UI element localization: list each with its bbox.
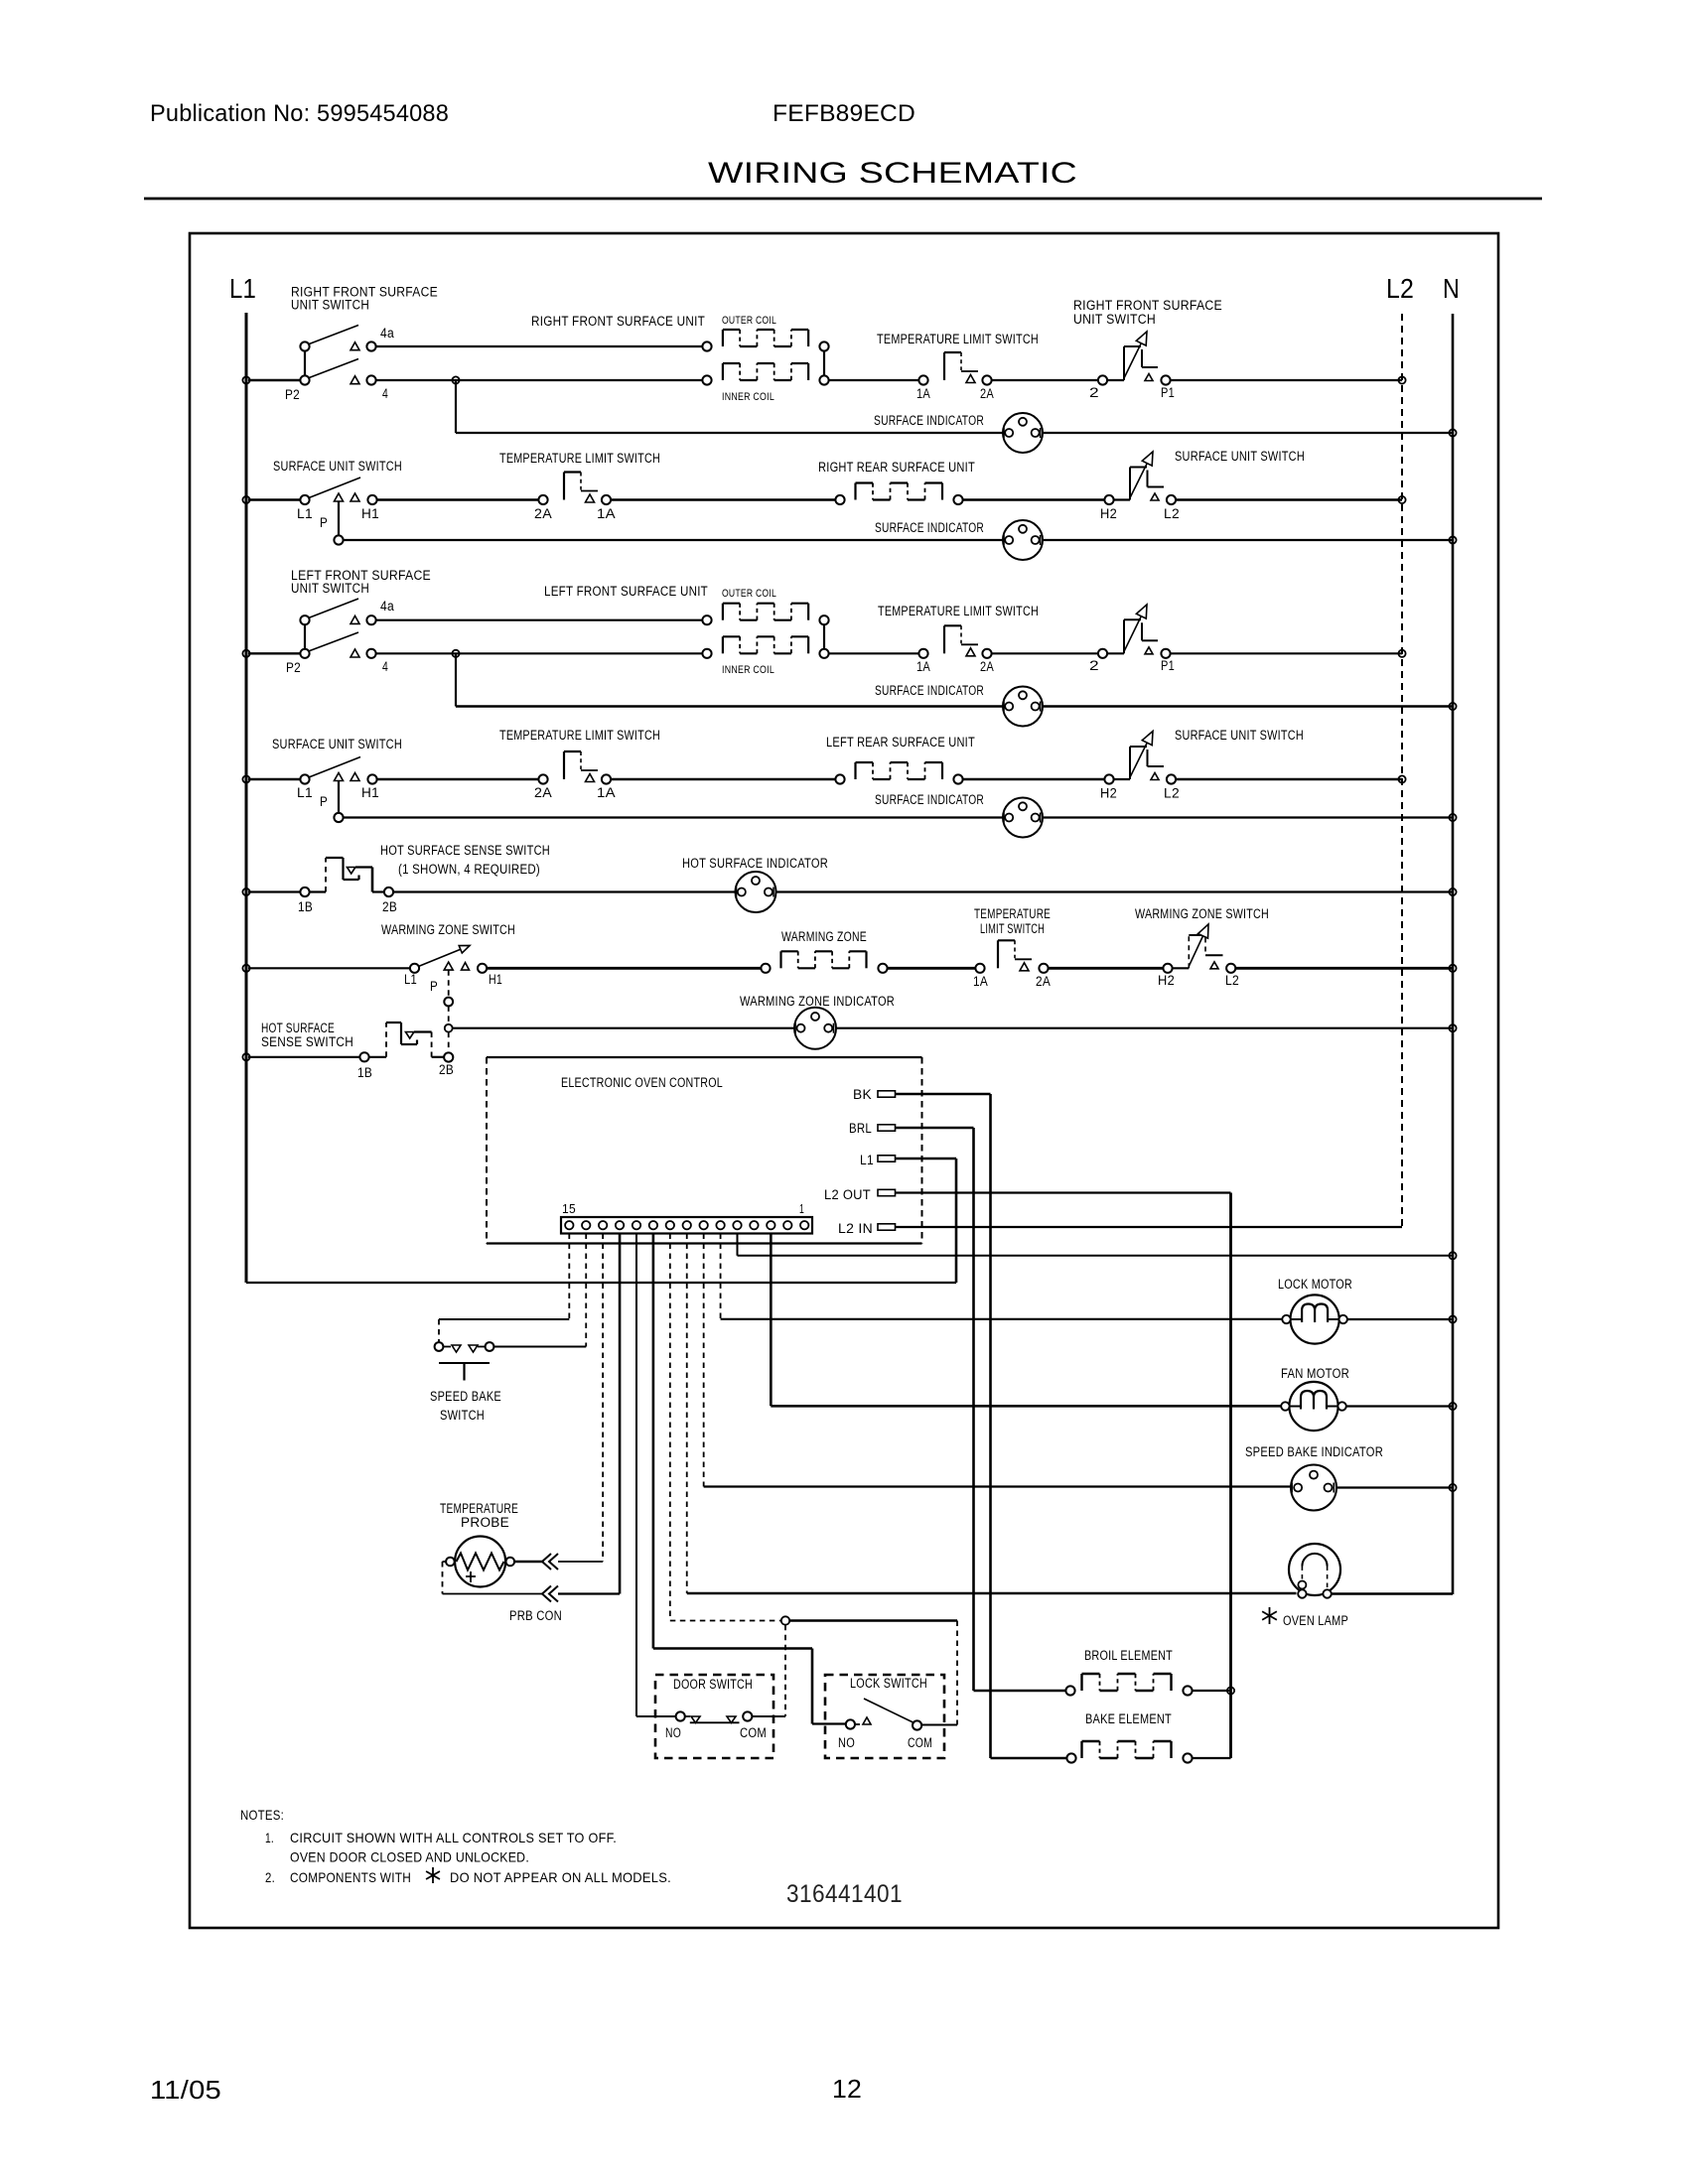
wire row4 L1 bus to switch bbox=[248, 778, 301, 780]
wire fan motor to N bus bbox=[1346, 1405, 1453, 1407]
svg-text:L1: L1 bbox=[297, 785, 313, 800]
wire row1 coil output link bbox=[823, 350, 825, 376]
svg-text:1: 1 bbox=[799, 1202, 804, 1216]
svg-text:1B: 1B bbox=[298, 899, 313, 914]
label L2 row4 bbox=[1164, 786, 1180, 801]
svg-text:COMPONENTS WITH: COMPONENTS WITH bbox=[290, 1869, 411, 1885]
label warming zone switch (left) bbox=[381, 922, 515, 937]
label P row4 bbox=[320, 794, 328, 809]
label hot surface indicator bbox=[682, 856, 828, 871]
svg-text:SURFACE UNIT SWITCH: SURFACE UNIT SWITCH bbox=[1175, 449, 1305, 464]
svg-text:H2: H2 bbox=[1100, 786, 1117, 801]
svg-text:(1 SHOWN, 4 REQUIRED): (1 SHOWN, 4 REQUIRED) bbox=[398, 862, 540, 877]
svg-text:PRB CON: PRB CON bbox=[509, 1608, 562, 1623]
switch warming zone (right, H2/L2) bbox=[1163, 924, 1235, 973]
label L1 row6 bbox=[404, 972, 417, 987]
svg-text:INNER COIL: INNER COIL bbox=[722, 391, 774, 403]
svg-text:N: N bbox=[1443, 273, 1460, 304]
wire row3 P1 to L2 bus bbox=[1170, 652, 1402, 654]
label lock COM bbox=[908, 1735, 932, 1750]
wire terminal 11 to door switch NO bbox=[636, 1234, 676, 1717]
label left front surface unit bbox=[544, 584, 708, 599]
switch surface unit row4 (L1/P/H1) bbox=[300, 757, 376, 823]
label 2A row3 bbox=[980, 659, 994, 674]
switch left front surface unit (right, 2/P1) bbox=[1098, 605, 1171, 658]
label temperature limit switch row3 bbox=[878, 604, 1039, 618]
svg-text:LIMIT SWITCH: LIMIT SWITCH bbox=[980, 921, 1045, 936]
svg-text:SPEED BAKE: SPEED BAKE bbox=[430, 1389, 501, 1404]
label temperature limit switch row6 bbox=[974, 906, 1051, 936]
label lock motor bbox=[1278, 1277, 1352, 1292]
junction node row4 on L1 bus bbox=[242, 775, 249, 782]
label speed bake switch bbox=[430, 1389, 501, 1423]
label inner coil row3 bbox=[722, 664, 774, 676]
svg-text:WARMING ZONE: WARMING ZONE bbox=[781, 929, 867, 944]
wire warming zone indicator feed bbox=[453, 1027, 1453, 1029]
label PRB CON bbox=[509, 1608, 562, 1623]
svg-text:NOTES:: NOTES: bbox=[240, 1807, 284, 1823]
pin terminal L2 IN bbox=[878, 1224, 896, 1230]
wire L2 IN terminal to L2 bus bbox=[896, 1226, 1403, 1228]
svg-text:SENSE SWITCH: SENSE SWITCH bbox=[261, 1034, 353, 1049]
switch temperature limit row4 (2A/1A) bbox=[538, 751, 611, 784]
header model number bbox=[773, 100, 915, 127]
label hot surface sense switch row7 bbox=[261, 1021, 353, 1049]
svg-text:15: 15 bbox=[562, 1202, 576, 1216]
wire broil element to L2 OUT run bbox=[1193, 1690, 1231, 1692]
svg-text:RIGHT FRONT SURFACE UNIT: RIGHT FRONT SURFACE UNIT bbox=[531, 314, 705, 329]
node N bus label bbox=[1443, 273, 1460, 304]
connector PRB chevron bottom bbox=[542, 1586, 558, 1602]
svg-text:P2: P2 bbox=[286, 660, 301, 675]
svg-text:L1: L1 bbox=[860, 1153, 874, 1167]
heater inner coil row3 bbox=[702, 636, 828, 658]
wire row3 limit switch to unit switch bbox=[991, 652, 1099, 654]
terminal circle row6 P mid bbox=[444, 998, 453, 1007]
switch surface unit row4 (right, H2/L2) bbox=[1104, 732, 1176, 784]
pin terminal BK bbox=[878, 1091, 896, 1097]
svg-text:FAN MOTOR: FAN MOTOR bbox=[1281, 1366, 1349, 1381]
label temperature probe bbox=[440, 1501, 518, 1530]
component lock switch box bbox=[825, 1675, 944, 1758]
label 2 row1 bbox=[1089, 385, 1099, 400]
svg-text:LEFT REAR SURFACE UNIT: LEFT REAR SURFACE UNIT bbox=[826, 735, 975, 750]
svg-text:L2: L2 bbox=[1225, 973, 1239, 988]
heater outer coil row3 bbox=[702, 604, 828, 625]
node L1 bus label bbox=[229, 273, 256, 304]
schematic border frame bbox=[190, 233, 1498, 1928]
svg-text:RIGHT FRONT SURFACE: RIGHT FRONT SURFACE bbox=[1073, 298, 1222, 313]
label H1 row4 bbox=[361, 785, 379, 800]
wire row3 coil output link bbox=[823, 624, 825, 650]
component temperature probe bbox=[446, 1537, 514, 1587]
label note 2 bbox=[265, 1869, 671, 1885]
junction node terminal5 on N bus bbox=[1449, 1252, 1456, 1259]
label L2 row6 bbox=[1225, 973, 1239, 988]
svg-text:SURFACE UNIT SWITCH: SURFACE UNIT SWITCH bbox=[273, 459, 402, 474]
junction node row2 indicator on N bus bbox=[1449, 536, 1456, 543]
label outer coil row1 bbox=[722, 315, 776, 327]
junction node row2 on L2 bus bbox=[1398, 496, 1405, 503]
label 1A row1 bbox=[916, 386, 930, 401]
label right rear surface unit bbox=[818, 460, 975, 475]
wire terminal 10 to lock switch NO bbox=[653, 1234, 846, 1724]
switch door (NO/COM) bbox=[676, 1711, 753, 1722]
label 4a row1 bbox=[380, 326, 394, 341]
pin terminal L2 OUT bbox=[878, 1189, 896, 1195]
node L2 bus label bbox=[1386, 273, 1414, 304]
label lock switch bbox=[850, 1676, 927, 1691]
label note 1b bbox=[290, 1849, 529, 1865]
svg-text:1A: 1A bbox=[597, 785, 616, 800]
label temperature limit switch row2 bbox=[499, 451, 660, 466]
label right front surface unit switch (right) bbox=[1073, 298, 1222, 327]
label right front surface unit switch (left) bbox=[291, 285, 438, 313]
svg-text:LEFT FRONT SURFACE UNIT: LEFT FRONT SURFACE UNIT bbox=[544, 584, 708, 599]
label surface indicator row4 bbox=[875, 792, 984, 807]
svg-text:316441401: 316441401 bbox=[786, 1880, 903, 1908]
label 2A row1 bbox=[980, 386, 994, 401]
svg-text:1B: 1B bbox=[357, 1065, 372, 1080]
svg-text:CIRCUIT SHOWN WITH ALL CONTROL: CIRCUIT SHOWN WITH ALL CONTROLS SET TO O… bbox=[290, 1830, 617, 1845]
junction node warming indicator tap bbox=[445, 1024, 453, 1032]
junction node fan motor on N bus bbox=[1449, 1403, 1456, 1410]
wire row6 P pilot dashed 2 bbox=[448, 1006, 450, 1024]
svg-text:H2: H2 bbox=[1158, 973, 1175, 988]
svg-text:HOT SURFACE INDICATOR: HOT SURFACE INDICATOR bbox=[682, 856, 828, 871]
wire row4 heater to unit switch bbox=[962, 778, 1105, 780]
wire row5 L1 bus to 1B bbox=[248, 890, 301, 892]
label terminal 1 bbox=[799, 1202, 804, 1216]
svg-text:HOT SURFACE: HOT SURFACE bbox=[261, 1021, 335, 1035]
label P row6 bbox=[430, 979, 438, 994]
svg-text:L2: L2 bbox=[1386, 273, 1414, 304]
label 1A row4 bbox=[597, 785, 616, 800]
svg-text:L1: L1 bbox=[229, 273, 256, 304]
svg-text:HOT SURFACE SENSE SWITCH: HOT SURFACE SENSE SWITCH bbox=[380, 843, 550, 858]
label L2 row2 bbox=[1164, 506, 1180, 521]
lamp surface indicator row4 bbox=[1003, 798, 1043, 838]
label 2A row2 bbox=[534, 506, 552, 521]
label terminal L2 IN bbox=[838, 1221, 873, 1236]
junction node row4 indicator on N bus bbox=[1449, 814, 1456, 821]
label warming zone switch (right) bbox=[1135, 906, 1269, 921]
svg-text:4a: 4a bbox=[380, 599, 394, 614]
svg-text:TEMPERATURE LIMIT SWITCH: TEMPERATURE LIMIT SWITCH bbox=[877, 332, 1039, 346]
label hot surface sense switch row5 bbox=[380, 843, 550, 877]
label 1A row6 bbox=[973, 974, 988, 989]
switch surface unit row2 (right, H2/L2) bbox=[1104, 452, 1176, 504]
wire terminal 3 to fan motor bbox=[771, 1234, 1281, 1407]
wire terminal 15 to speed bake switch bbox=[439, 1234, 569, 1343]
svg-text:BAKE ELEMENT: BAKE ELEMENT bbox=[1085, 1711, 1172, 1726]
junction node warming indicator on N bus bbox=[1449, 1024, 1456, 1031]
wire row3 upper 4a to outer coil bbox=[375, 619, 703, 621]
wire BRL terminal run bbox=[896, 1128, 974, 1691]
wire terminal 5 to N bus bbox=[738, 1234, 1454, 1256]
wire row1 indicator feed bbox=[456, 380, 1453, 433]
svg-text:P2: P2 bbox=[285, 387, 300, 402]
wire row3 coils to limit switch bbox=[828, 652, 919, 654]
wire oven lamp to N bus bbox=[1332, 1592, 1453, 1595]
label terminal L2 OUT bbox=[824, 1187, 871, 1202]
wire probe return to chevron bottom bbox=[443, 1562, 543, 1594]
footer page 12 bbox=[832, 2074, 862, 2104]
junction node row7 on L1 bus bbox=[242, 1053, 249, 1060]
svg-text:SURFACE INDICATOR: SURFACE INDICATOR bbox=[875, 683, 984, 698]
svg-text:SWITCH: SWITCH bbox=[440, 1408, 485, 1423]
label broil element bbox=[1084, 1648, 1173, 1663]
footer date 11/05 bbox=[150, 2075, 221, 2105]
switch warming zone (left, L1/P/H1) bbox=[410, 946, 487, 973]
label left rear surface unit bbox=[826, 735, 975, 750]
label H2 row6 bbox=[1158, 973, 1175, 988]
label surface indicator row3 bbox=[875, 683, 984, 698]
svg-text:2: 2 bbox=[1089, 658, 1099, 673]
svg-text:DOOR SWITCH: DOOR SWITCH bbox=[673, 1677, 753, 1692]
svg-text:PROBE: PROBE bbox=[461, 1515, 509, 1530]
svg-text:1A: 1A bbox=[916, 386, 930, 401]
label speed bake indicator bbox=[1245, 1444, 1383, 1459]
svg-text:2A: 2A bbox=[1036, 974, 1051, 989]
svg-text:SURFACE INDICATOR: SURFACE INDICATOR bbox=[874, 413, 984, 428]
svg-text:OVEN LAMP: OVEN LAMP bbox=[1283, 1613, 1348, 1628]
wire row1 L1 bus to switch P2 bbox=[248, 379, 301, 381]
switch hot surface sense row5 (1B/2B) bbox=[300, 858, 393, 896]
terminal circle 2B shared row6/row7 bbox=[444, 1052, 453, 1061]
svg-text:ELECTRONIC OVEN CONTROL: ELECTRONIC OVEN CONTROL bbox=[561, 1075, 723, 1090]
wire row4 limit switch to heater bbox=[611, 778, 836, 780]
wire terminal 7 to speed bake indicator bbox=[704, 1234, 1291, 1487]
label terminal BRL bbox=[849, 1121, 872, 1136]
wire row4 indicator feed bbox=[343, 816, 1453, 818]
svg-text:Publication No: 5995454088: Publication No: 5995454088 bbox=[150, 100, 449, 127]
svg-text:DO NOT APPEAR ON ALL MODELS.: DO NOT APPEAR ON ALL MODELS. bbox=[450, 1869, 671, 1885]
label 4 row3 bbox=[382, 659, 388, 674]
wire N bus vertical bbox=[1452, 314, 1455, 1594]
wire row3 main 4 to inner coil bbox=[375, 652, 703, 654]
junction node row3 indicator tap bbox=[452, 650, 459, 657]
svg-text:WARMING ZONE SWITCH: WARMING ZONE SWITCH bbox=[381, 922, 515, 937]
wire L1 bus vertical bbox=[245, 313, 248, 1283]
label temperature limit switch row1 bbox=[877, 332, 1039, 346]
wire row6 H1 to warming element bbox=[487, 967, 762, 970]
svg-text:TEMPERATURE: TEMPERATURE bbox=[440, 1501, 518, 1516]
svg-text:TEMPERATURE LIMIT SWITCH: TEMPERATURE LIMIT SWITCH bbox=[499, 728, 660, 743]
label surface indicator row2 bbox=[875, 520, 984, 535]
svg-text:L2 OUT: L2 OUT bbox=[824, 1187, 871, 1202]
wire COM tap to lock COM riser bbox=[789, 1619, 957, 1622]
lamp surface indicator row3 bbox=[1003, 687, 1043, 727]
label door COM bbox=[740, 1725, 767, 1740]
symbol asterisk oven lamp bbox=[1262, 1607, 1277, 1624]
label surface unit switch row2 (left) bbox=[273, 459, 402, 474]
wire row6 P pilot dashed 3 bbox=[448, 1032, 450, 1053]
svg-text:12: 12 bbox=[832, 2074, 862, 2104]
svg-text:1A: 1A bbox=[916, 659, 930, 674]
svg-text:1.: 1. bbox=[265, 1830, 274, 1845]
junction node door/lock COM tap bbox=[781, 1616, 789, 1624]
wire row2 L2 to L2 bus bbox=[1176, 498, 1402, 500]
connector PRB chevron top bbox=[542, 1554, 558, 1570]
svg-text:WARMING ZONE INDICATOR: WARMING ZONE INDICATOR bbox=[740, 994, 895, 1009]
junction node row3 on L1 bus bbox=[242, 650, 249, 657]
svg-text:H1: H1 bbox=[361, 785, 379, 800]
component EOC terminal strip bbox=[561, 1217, 812, 1234]
label notes heading bbox=[240, 1807, 284, 1823]
svg-text:2B: 2B bbox=[439, 1062, 454, 1077]
lamp hot surface indicator bbox=[736, 872, 776, 912]
junction node row6 on L1 bus bbox=[242, 965, 249, 972]
label P1 row1 bbox=[1161, 385, 1175, 400]
wire L1 bus bottom to EOC L1 bbox=[246, 1282, 956, 1284]
wire speed bake indicator to N bus bbox=[1336, 1486, 1453, 1488]
wire row1 coils to limit switch bbox=[828, 379, 919, 381]
svg-text:TEMPERATURE: TEMPERATURE bbox=[974, 906, 1051, 921]
heater warming zone bbox=[761, 951, 887, 973]
label 1A row3 bbox=[916, 659, 930, 674]
label H2 row4 bbox=[1100, 786, 1117, 801]
wire L2 OUT terminal run bbox=[896, 1193, 1231, 1759]
svg-text:UNIT SWITCH: UNIT SWITCH bbox=[1073, 312, 1156, 327]
label 2B row5 bbox=[382, 899, 397, 914]
wire row1 main 4 to inner coil bbox=[375, 379, 703, 381]
lamp warming zone indicator bbox=[794, 1008, 836, 1049]
junction node lock motor on N bus bbox=[1449, 1315, 1456, 1322]
heater broil element bbox=[1065, 1674, 1192, 1696]
wire lock motor to N bus bbox=[1347, 1318, 1453, 1320]
label surface indicator row1 bbox=[874, 413, 984, 428]
svg-text:1A: 1A bbox=[597, 506, 616, 521]
svg-text:WARMING ZONE SWITCH: WARMING ZONE SWITCH bbox=[1135, 906, 1269, 921]
wire row2 L1 bus to switch bbox=[248, 498, 301, 500]
svg-text:P: P bbox=[430, 979, 438, 994]
label terminal L1 bbox=[860, 1153, 874, 1167]
switch temperature limit row1 (1A/2A) bbox=[918, 352, 991, 385]
wire COM tap to door COM bbox=[752, 1625, 785, 1716]
wire row7 L1 bus to 1B bbox=[248, 1056, 360, 1058]
wire bake element to L2 OUT run bbox=[1193, 1757, 1231, 1759]
svg-text:OUTER COIL: OUTER COIL bbox=[722, 588, 776, 600]
svg-text:L2: L2 bbox=[1164, 786, 1180, 801]
label door switch bbox=[673, 1677, 753, 1692]
junction node broil on L2 OUT run bbox=[1227, 1687, 1234, 1694]
svg-text:SURFACE UNIT SWITCH: SURFACE UNIT SWITCH bbox=[272, 737, 402, 751]
svg-text:2.: 2. bbox=[265, 1869, 275, 1885]
heater left rear surface unit bbox=[835, 762, 962, 784]
header publication number bbox=[150, 100, 449, 127]
switch temperature limit row2 (2A/1A) bbox=[538, 473, 611, 505]
svg-text:P1: P1 bbox=[1161, 385, 1175, 400]
svg-text:FEFB89ECD: FEFB89ECD bbox=[773, 100, 915, 127]
label 2A row4 bbox=[534, 785, 552, 800]
junction node row3 on L2 bus bbox=[1398, 650, 1405, 657]
junction node row5 on N bus bbox=[1449, 888, 1456, 895]
wire row6 L1 bus to switch bbox=[248, 967, 410, 969]
svg-text:1A: 1A bbox=[973, 974, 988, 989]
wire row6 limit to warming switch bbox=[1048, 967, 1164, 970]
junction node row1 indicator tap bbox=[452, 376, 459, 383]
svg-text:NO: NO bbox=[665, 1725, 681, 1740]
label right front surface unit bbox=[531, 314, 705, 329]
junction node speed bake indicator on N bus bbox=[1449, 1484, 1456, 1491]
junction node row3 indicator on N bus bbox=[1449, 703, 1456, 710]
wire row6 element to limit switch bbox=[887, 967, 976, 970]
wire terminal 9 to door/lock COM bbox=[670, 1234, 781, 1621]
label terminal 15 bbox=[562, 1202, 576, 1216]
svg-text:2A: 2A bbox=[534, 506, 552, 521]
label door NO bbox=[665, 1725, 681, 1740]
label L1 row2 bbox=[297, 506, 313, 521]
svg-text:P: P bbox=[320, 794, 328, 809]
svg-text:2A: 2A bbox=[980, 386, 994, 401]
label inner coil row1 bbox=[722, 391, 774, 403]
label 1B row7 bbox=[357, 1065, 372, 1080]
switch right front surface unit (right, 2/P1) bbox=[1098, 332, 1171, 385]
wire row3 L1 bus to switch P2 bbox=[248, 652, 301, 654]
svg-text:H2: H2 bbox=[1100, 506, 1117, 521]
svg-text:INNER COIL: INNER COIL bbox=[722, 664, 774, 676]
label P row2 bbox=[320, 515, 328, 530]
junction node row5 on L1 bus bbox=[242, 888, 249, 895]
wire row1 P1 to L2 bus bbox=[1170, 379, 1402, 381]
wire terminal 6 to lock motor bbox=[721, 1234, 1282, 1319]
svg-text:11/05: 11/05 bbox=[150, 2075, 221, 2105]
label surface unit switch row4 (right) bbox=[1175, 728, 1304, 743]
label outer coil row3 bbox=[722, 588, 776, 600]
svg-text:SPEED BAKE INDICATOR: SPEED BAKE INDICATOR bbox=[1245, 1444, 1383, 1459]
svg-text:P: P bbox=[320, 515, 328, 530]
svg-text:UNIT SWITCH: UNIT SWITCH bbox=[291, 581, 369, 596]
label lock NO bbox=[838, 1735, 855, 1750]
label warming zone indicator bbox=[740, 994, 895, 1009]
svg-text:LOCK SWITCH: LOCK SWITCH bbox=[850, 1676, 927, 1691]
motor fan motor bbox=[1281, 1382, 1346, 1431]
svg-text:SURFACE UNIT SWITCH: SURFACE UNIT SWITCH bbox=[1175, 728, 1304, 743]
svg-text:2A: 2A bbox=[534, 785, 552, 800]
svg-text:OUTER COIL: OUTER COIL bbox=[722, 315, 776, 327]
svg-text:COM: COM bbox=[908, 1735, 932, 1750]
svg-text:4: 4 bbox=[382, 386, 388, 401]
wire BRL to broil element bbox=[974, 1690, 1067, 1693]
component door switch box bbox=[655, 1675, 774, 1758]
label H1 row6 bbox=[489, 972, 502, 987]
svg-text:WIRING SCHEMATIC: WIRING SCHEMATIC bbox=[708, 157, 1077, 190]
svg-text:4: 4 bbox=[382, 659, 388, 674]
wire row2 limit switch to heater bbox=[611, 498, 836, 500]
wire row2 indicator feed bbox=[343, 539, 1453, 541]
label fan motor bbox=[1281, 1366, 1349, 1381]
switch temperature limit row6 (1A/2A) bbox=[975, 940, 1048, 973]
svg-text:BROIL ELEMENT: BROIL ELEMENT bbox=[1084, 1648, 1173, 1663]
svg-text:BK: BK bbox=[853, 1087, 872, 1102]
switch surface unit row2 (L1/P/H1) bbox=[300, 478, 376, 545]
label P1 row3 bbox=[1161, 658, 1175, 673]
wire row1 limit switch to unit switch bbox=[991, 379, 1099, 381]
svg-text:NO: NO bbox=[838, 1735, 855, 1750]
title WIRING SCHEMATIC bbox=[708, 157, 1077, 190]
svg-text:COM: COM bbox=[740, 1725, 767, 1740]
junction node row2 on L1 bus bbox=[242, 496, 249, 503]
label 1B row5 bbox=[298, 899, 313, 914]
svg-text:L2 IN: L2 IN bbox=[838, 1221, 873, 1236]
component oven lamp bbox=[1289, 1544, 1340, 1598]
wire chevron bottom to terminal 12 bbox=[558, 1234, 620, 1594]
label left front surface unit switch (left) bbox=[291, 568, 431, 596]
component electronic oven control box bbox=[487, 1057, 922, 1244]
label temperature limit switch row4 bbox=[499, 728, 660, 743]
wire L2 bus vertical (dashed) bbox=[1401, 314, 1403, 1227]
